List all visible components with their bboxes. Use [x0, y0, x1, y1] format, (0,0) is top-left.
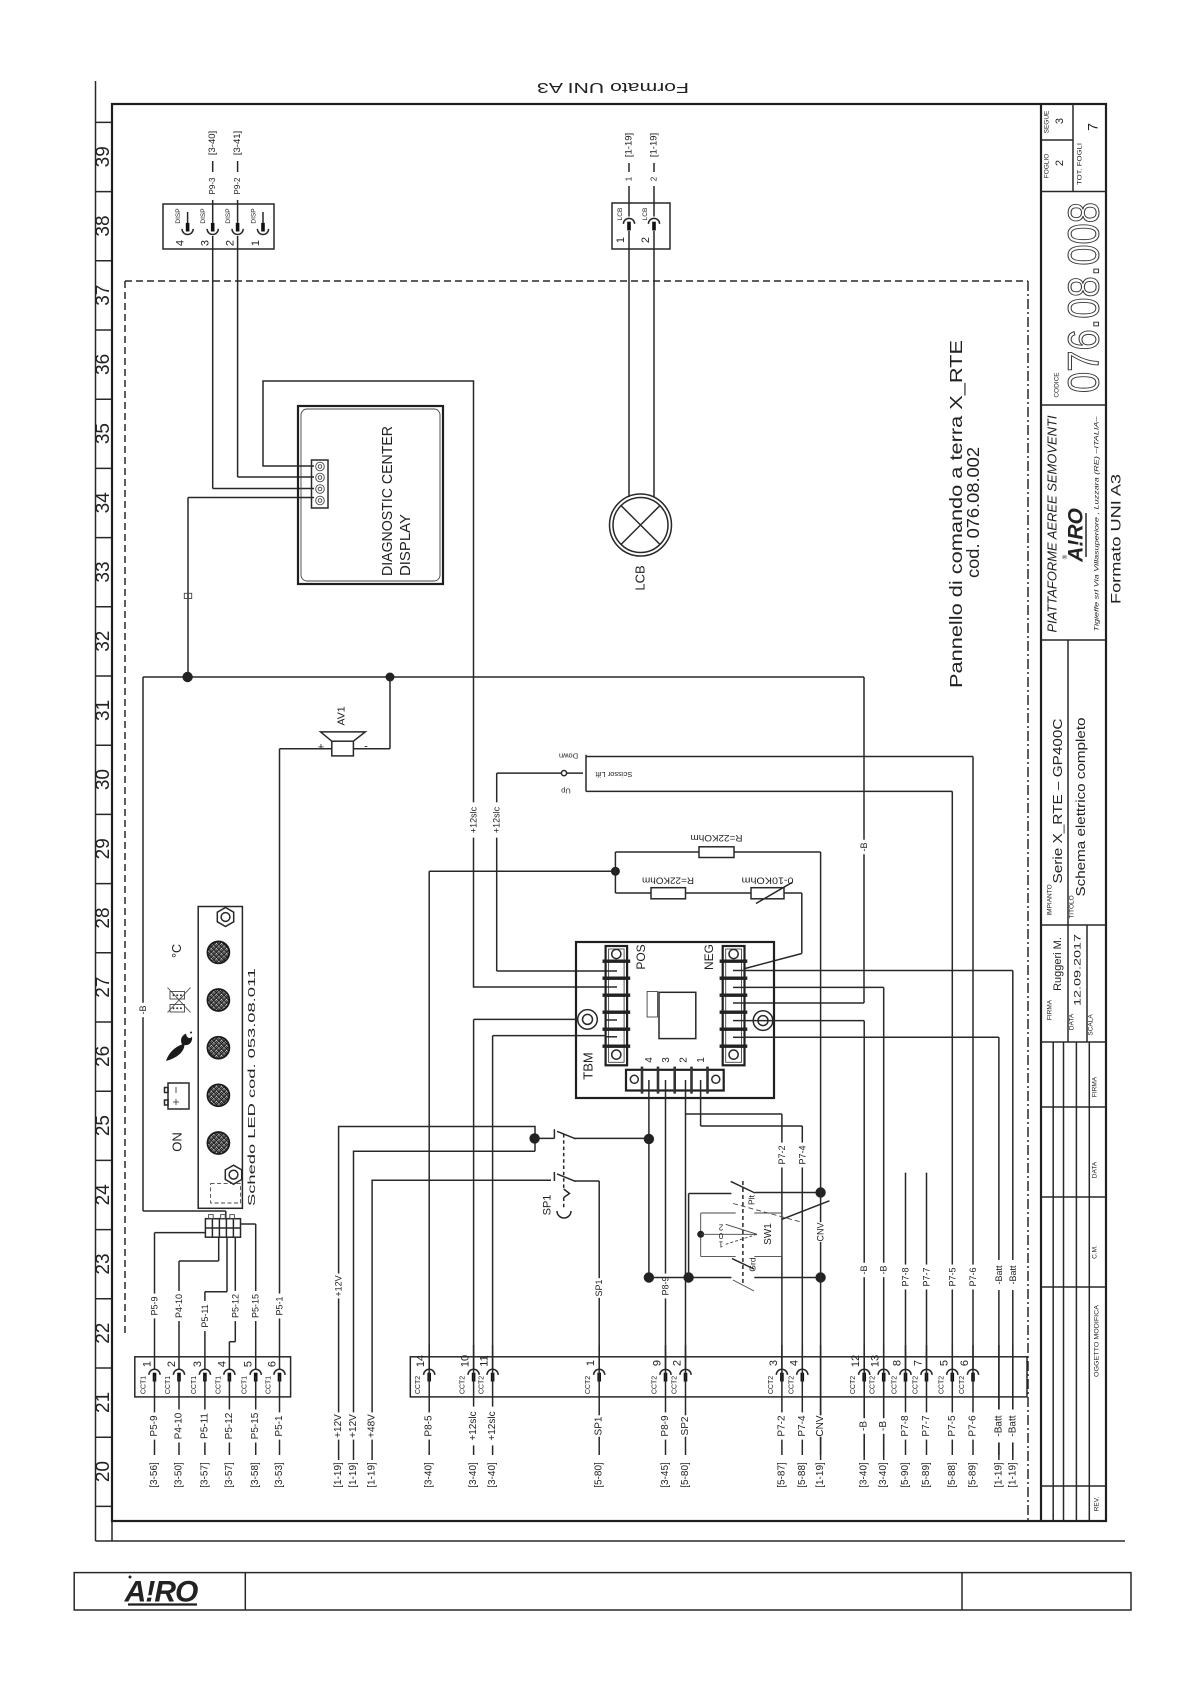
svg-text:1: 1 — [142, 1361, 154, 1367]
svg-text:P4-10: P4-10 — [174, 1294, 184, 1318]
wire CNV — [820, 852, 822, 1460]
svg-text:P9-3: P9-3 — [208, 177, 217, 194]
CCT2 pin 6 — [959, 1360, 979, 1394]
svg-text:SP1: SP1 — [594, 1416, 605, 1435]
resistor R=22KOhm (upper) — [615, 833, 820, 871]
svg-text:SP1: SP1 — [542, 1195, 554, 1216]
svg-text:[1-19]: [1-19] — [367, 1462, 378, 1488]
svg-text:TITOLO: TITOLO — [1069, 895, 1076, 918]
svg-text:28: 28 — [93, 907, 114, 928]
wire LED P5-9 — [155, 1233, 206, 1369]
label P7-6 (upper) — [968, 1265, 978, 1290]
svg-text:31: 31 — [93, 700, 114, 721]
svg-text:R=22KOhm: R=22KOhm — [691, 833, 743, 843]
svg-text:4: 4 — [788, 1360, 800, 1366]
svg-text:29: 29 — [93, 838, 114, 859]
svg-text:CCT2: CCT2 — [768, 1376, 775, 1394]
svg-text:P8-5: P8-5 — [424, 1415, 435, 1437]
wire SP1 output to CCT2 pin1 — [598, 1181, 600, 1369]
svg-text:+12slc: +12slc — [469, 806, 479, 833]
label P8-9 (upper) — [661, 1274, 671, 1299]
svg-text:CNV: CNV — [815, 1415, 826, 1436]
SW1 position indicator — [697, 1181, 829, 1283]
svg-text:SP2: SP2 — [680, 1416, 691, 1435]
svg-text:2: 2 — [718, 1223, 723, 1232]
wire LCB pin2 label [1-19] — [649, 133, 660, 217]
CCT2 pin 8 — [892, 1360, 912, 1394]
dashed panel boundary — [125, 281, 1028, 1520]
svg-text:14: 14 — [415, 1355, 427, 1367]
svg-text:+12slc: +12slc — [487, 1411, 498, 1440]
display connector (4 pins) — [312, 460, 329, 508]
label -B (right branch) — [859, 840, 869, 854]
ruler numbers 39..20 — [93, 146, 114, 1482]
hex nut bottom — [225, 1165, 241, 1184]
label CNV (upper) — [816, 1222, 826, 1242]
svg-text:DATA: DATA — [1092, 1161, 1099, 1178]
wire CCT2 -B to [3-40] — [859, 1345, 870, 1488]
title block FOGLIO/SEGUE cells — [1041, 104, 1101, 192]
hex nut top — [217, 908, 233, 927]
svg-text:TOT. FOGLI: TOT. FOGLI — [1077, 143, 1084, 185]
svg-text:CCT2: CCT2 — [415, 1376, 422, 1394]
svg-text:CCT1: CCT1 — [191, 1376, 198, 1394]
label P5-9 (upper) — [150, 1294, 160, 1319]
wire LED P5-15 — [241, 1224, 256, 1369]
title block frame — [1041, 104, 1106, 1521]
svg-text:33: 33 — [93, 561, 114, 582]
svg-text:[5-89]: [5-89] — [921, 1462, 932, 1488]
svg-text:FIRMA: FIRMA — [1047, 999, 1054, 1020]
svg-text:CCT2: CCT2 — [959, 1376, 966, 1394]
svg-text:NEG: NEG — [702, 944, 716, 970]
svg-text:CCT2: CCT2 — [892, 1376, 899, 1394]
wire CCT2 SP2 to [5-80] — [680, 1345, 691, 1488]
svg-text:1: 1 — [585, 1360, 597, 1366]
svg-text:10: 10 — [460, 1355, 472, 1367]
wire AV1 plus to CCT1 pin6 — [280, 749, 332, 1369]
svg-text:P5-1: P5-1 — [274, 1415, 285, 1437]
svg-text:C.M.: C.M. — [1092, 1245, 1099, 1259]
potentiometer 0-10KOhm — [686, 876, 794, 904]
svg-text:Ruggeri M.: Ruggeri M. — [1052, 937, 1064, 991]
svg-text:R=22KOhm: R=22KOhm — [642, 876, 694, 886]
svg-text:REV.: REV. — [1094, 1497, 1101, 1512]
svg-text:P5-11: P5-11 — [199, 1413, 210, 1439]
svg-text:3: 3 — [200, 240, 212, 246]
wire P9-2 to [3-41] — [232, 131, 243, 223]
svg-text:P5-12: P5-12 — [224, 1412, 235, 1439]
LED board connector — [205, 1215, 240, 1238]
TBM bottom terminal strip — [626, 1057, 724, 1094]
svg-text:2: 2 — [1054, 160, 1066, 166]
pushbutton SP1 — [529, 1129, 649, 1218]
svg-text:CCT1: CCT1 — [165, 1376, 172, 1394]
box DIAGNOSTIC CENTER DISPLAY — [298, 406, 443, 584]
label -B (left branch) — [138, 1003, 148, 1017]
main border — [112, 104, 1106, 1521]
wire LED P4-10 — [179, 1237, 219, 1369]
wire washer to +12slc CCT2 pin10 — [474, 1019, 578, 1369]
TBM terminal strip POS — [603, 944, 649, 1065]
CCT2 pin 10 — [460, 1355, 480, 1394]
AIRO logo (footer) — [124, 1576, 198, 1609]
svg-text:4: 4 — [216, 1361, 228, 1367]
svg-text:CCT2: CCT2 — [479, 1376, 486, 1394]
TBM ic chip — [647, 992, 696, 1039]
CCT1 pin 4 — [215, 1361, 235, 1394]
svg-text:1: 1 — [625, 176, 634, 181]
svg-text:P7-6: P7-6 — [968, 1267, 978, 1286]
label P5-1 (upper) — [275, 1294, 285, 1319]
wire NEG pin4 to -B (12) — [745, 1021, 864, 1460]
CCT2 pin 12 — [850, 1355, 870, 1394]
svg-text:Serie X_RTE – GP400C: Serie X_RTE – GP400C — [1051, 719, 1065, 884]
wire +48V to [1-19] — [367, 1412, 378, 1487]
wire -B left branch down to LED board — [143, 677, 226, 1219]
wire pot to NEG pin1 — [745, 893, 802, 969]
wire CCT2 P7-6 to [5-89] — [968, 1345, 979, 1488]
label P5-15 (upper) — [251, 1291, 261, 1321]
wire CCT2 P7-5 to [5-88] — [947, 1345, 958, 1488]
svg-text:CCT2: CCT2 — [913, 1376, 920, 1394]
svg-text:[3-45]: [3-45] — [660, 1462, 671, 1488]
CCT2 pin 1 — [585, 1360, 605, 1394]
svg-text:CCT1: CCT1 — [141, 1376, 148, 1394]
svg-text:[1-19]: [1-19] — [333, 1462, 344, 1488]
svg-text:FOGLIO: FOGLIO — [1044, 154, 1051, 179]
svg-text:30: 30 — [93, 769, 114, 790]
svg-text:21: 21 — [93, 1392, 114, 1413]
svg-text:-Batt: -Batt — [994, 1265, 1004, 1285]
CCT1 pin 2 — [165, 1361, 185, 1394]
svg-text:-: - — [364, 741, 368, 753]
svg-text:-Batt: -Batt — [1007, 1415, 1018, 1436]
wire CCT2 P7-8 to [5-90] — [900, 1345, 911, 1488]
wire CCT2 CNV to [1-19] — [815, 1345, 826, 1488]
label -Batt (upper left) — [994, 1260, 1004, 1290]
icon temperature — [170, 944, 184, 958]
svg-text:[1-19]: [1-19] — [993, 1462, 1004, 1488]
svg-text:25: 25 — [93, 1115, 114, 1136]
CCT2 pin 13 — [870, 1355, 890, 1394]
page outer edge left — [95, 81, 97, 1541]
wire CCT2 -Batt to [1-19] — [1007, 1345, 1018, 1488]
svg-text:CNV: CNV — [816, 1222, 826, 1241]
svg-text:2: 2 — [672, 1360, 684, 1366]
svg-text:-Batt: -Batt — [1008, 1265, 1018, 1285]
svg-text:+12V: +12V — [334, 1275, 344, 1296]
svg-text:2: 2 — [166, 1361, 178, 1367]
svg-text:[3-40]: [3-40] — [859, 1462, 870, 1488]
svg-text:Schedo LED cod. 053.08.011: Schedo LED cod. 053.08.011 — [246, 968, 258, 1206]
svg-text:DISP: DISP — [251, 208, 258, 223]
svg-text:CCT2: CCT2 — [585, 1376, 592, 1394]
svg-text:11: 11 — [479, 1355, 491, 1366]
svg-text:P7-7: P7-7 — [921, 1415, 932, 1437]
svg-text:P4-10: P4-10 — [174, 1412, 185, 1439]
CCT2 pin 5 — [938, 1360, 958, 1394]
svg-text:CCT1: CCT1 — [215, 1376, 222, 1394]
svg-text:38: 38 — [93, 215, 114, 236]
wire NEG pin1 to -Batt — [745, 971, 1013, 1461]
wire selector wiper to +12slc POS — [497, 773, 606, 971]
svg-text:CCT2: CCT2 — [788, 1376, 795, 1394]
wire CCT1 pin 2 to [3-50] — [174, 1376, 185, 1488]
TBM mounting hole right — [753, 1011, 773, 1031]
svg-text:P7-4: P7-4 — [797, 1415, 808, 1437]
connector CCT1 — [135, 1357, 291, 1397]
wire +48V feed — [372, 1180, 551, 1460]
wire LCB pin1 label [1-19] — [624, 133, 635, 217]
wire +12V to [1-19] — [348, 1412, 359, 1487]
CCT1 pin 5 — [242, 1361, 262, 1394]
ruler ticks — [96, 122, 113, 1506]
svg-text:[1-19]: [1-19] — [348, 1462, 359, 1488]
svg-text:[3-40]: [3-40] — [878, 1462, 889, 1488]
svg-text:SEGUE: SEGUE — [1044, 110, 1051, 133]
title block CODICE cell — [1054, 202, 1109, 398]
page bottom edge — [96, 1540, 1126, 1542]
wire CCT2 P7-7 to [5-89] — [921, 1345, 932, 1488]
svg-text:4: 4 — [175, 240, 187, 246]
label P5-12 (upper) — [230, 1291, 240, 1321]
svg-text:ON: ON — [170, 1132, 185, 1152]
label P7-2 (upper) — [777, 1143, 787, 1168]
svg-text:34: 34 — [93, 492, 114, 514]
wire TBM pin3 to CCT2 P8-9 — [665, 1080, 667, 1369]
node resistor junction — [429, 867, 620, 876]
label SP1 (upper) — [594, 1278, 604, 1298]
svg-text:CCT2: CCT2 — [938, 1376, 945, 1394]
ruler strip right line — [111, 104, 113, 1541]
svg-text:-B: -B — [138, 1006, 148, 1015]
svg-text:3: 3 — [1054, 118, 1066, 124]
wire P9-3 to [3-40] — [207, 131, 218, 223]
svg-text:P7-2: P7-2 — [776, 1415, 787, 1437]
wire LCB pin1 to lamp — [628, 231, 630, 497]
svg-text:P7-4: P7-4 — [797, 1145, 807, 1164]
svg-text:7: 7 — [1085, 123, 1101, 131]
svg-text:39: 39 — [93, 146, 114, 167]
wire DISP pin2 down to display connector — [238, 236, 314, 477]
dashed resistor outline — [211, 1184, 241, 1203]
svg-text:3: 3 — [192, 1361, 204, 1367]
icon battery — [165, 1083, 190, 1109]
svg-text:Scissor Lift: Scissor Lift — [595, 770, 633, 779]
svg-text:[1-19]: [1-19] — [649, 133, 660, 157]
wire selector Up to P7-5 — [586, 791, 952, 1369]
label -B (pin12 upper) — [859, 1263, 869, 1277]
wire CCT1 pin 5 to [3-58] — [250, 1376, 261, 1488]
selector Scissor Lift — [559, 752, 632, 796]
svg-text:Grd: Grd — [748, 1257, 758, 1271]
svg-text:cod. 076.08.002: cod. 076.08.002 — [963, 447, 983, 578]
wire LCB pin2 to lamp — [653, 231, 655, 498]
svg-text:Formato UNI A3: Formato UNI A3 — [1109, 474, 1124, 604]
svg-text:P9-2: P9-2 — [233, 177, 242, 194]
wire P7-7 stub — [922, 1173, 932, 1369]
svg-text:7: 7 — [913, 1360, 925, 1366]
svg-text:P8-9: P8-9 — [661, 1276, 671, 1295]
svg-text:[5-89]: [5-89] — [968, 1462, 979, 1488]
svg-text:32: 32 — [93, 631, 114, 652]
title block IMPIANTO/TITOLO — [1047, 640, 1089, 925]
label P7-4 (upper) — [797, 1143, 807, 1168]
svg-text:IMPIANTO: IMPIANTO — [1047, 884, 1054, 915]
title block manufacturer cell — [1045, 415, 1101, 632]
connector DISP (4-pin) — [163, 204, 274, 249]
svg-text:OGGETTO MODIFICA: OGGETTO MODIFICA — [1094, 1304, 1101, 1377]
label +12V (upper) — [334, 1274, 344, 1299]
svg-text:26: 26 — [93, 1046, 114, 1067]
svg-text:Schema elettrico completo: Schema elettrico completo — [1074, 717, 1088, 896]
Pannello di comando note — [946, 340, 983, 688]
svg-text:[5-90]: [5-90] — [900, 1462, 911, 1488]
svg-text:[3-57]: [3-57] — [224, 1462, 235, 1488]
svg-text:P7-7: P7-7 — [922, 1267, 932, 1286]
buzzer AV1 — [318, 706, 368, 756]
svg-text:[3-40]: [3-40] — [424, 1462, 435, 1488]
svg-text:1: 1 — [615, 237, 627, 243]
lamp LCB — [610, 494, 672, 591]
svg-text:5: 5 — [938, 1360, 950, 1366]
wire CCT1 pin 3 to [3-57] — [199, 1376, 210, 1488]
CCT2 pin 2 — [672, 1360, 692, 1394]
svg-text:1: 1 — [718, 1240, 723, 1249]
wire CCT2 P8-9 to [3-45] — [660, 1345, 671, 1488]
LED lamp 4 — [207, 1084, 229, 1106]
svg-text:SP1: SP1 — [594, 1279, 604, 1296]
AIRO logo (title block) — [1062, 508, 1088, 563]
label -Batt (upper right) — [1008, 1260, 1018, 1290]
label +12slc (display wire) — [469, 802, 479, 837]
svg-text:[5-88]: [5-88] — [947, 1462, 958, 1488]
svg-text:CCT2: CCT2 — [672, 1376, 679, 1394]
wire CCT2 P8-5 to [3-40] — [424, 1345, 435, 1488]
wire DISP pin3 down to display connector — [213, 236, 314, 489]
svg-text:[1-19]: [1-19] — [1007, 1462, 1018, 1488]
LED lamp 5 (ON) — [207, 1132, 229, 1154]
wire CCT1 pin 4 to [3-57] — [224, 1376, 235, 1488]
svg-text:-B: -B — [859, 1421, 870, 1431]
wire CCT2 +12slc to [3-40] — [487, 1345, 498, 1488]
svg-text:-B: -B — [859, 1266, 869, 1275]
svg-text:2: 2 — [679, 1057, 690, 1063]
wire TBM pin1 to P7-4 — [701, 1080, 803, 1369]
svg-text:CCT2: CCT2 — [460, 1376, 467, 1394]
wire selector Down to P7-6 — [586, 757, 973, 1370]
wire -B right branch to TBM NEG — [745, 677, 864, 1003]
wire CCT1 pin 6 to [3-53] — [274, 1376, 285, 1488]
svg-text:DISP: DISP — [200, 208, 207, 223]
svg-text:1: 1 — [250, 240, 262, 246]
label P5-11 (upper) — [200, 1301, 210, 1331]
label P7-5 (upper) — [947, 1265, 957, 1290]
wire POS pin4 to +12slc CCT2 pin11 — [493, 1036, 606, 1369]
svg-text:®: ® — [1062, 554, 1069, 559]
svg-text:+: + — [318, 742, 324, 754]
svg-text:9: 9 — [652, 1360, 664, 1366]
svg-text:35: 35 — [93, 423, 114, 444]
svg-text:Formato UNI A3: Formato UNI A3 — [537, 79, 689, 96]
svg-text:[5-80]: [5-80] — [594, 1462, 605, 1488]
CCT1 pin 6 — [266, 1361, 286, 1394]
LED lamp 2 — [207, 989, 229, 1011]
switch SW1 contact Plt — [689, 1181, 826, 1222]
svg-text:076.08.008: 076.08.008 — [1060, 202, 1109, 393]
svg-text:DISP: DISP — [225, 208, 232, 223]
CCT2 pin 11 — [479, 1355, 499, 1394]
svg-text:3: 3 — [661, 1057, 672, 1063]
board Schedo LED — [198, 907, 258, 1209]
wire AV1 minus to bus — [353, 677, 390, 749]
svg-text:DISPLAY: DISPLAY — [398, 514, 414, 576]
title block FIRMA/DATA/SCALA — [1047, 925, 1095, 1042]
svg-text:[5-88]: [5-88] — [797, 1462, 808, 1488]
svg-text:[1-19]: [1-19] — [624, 133, 635, 157]
svg-text:CCT1: CCT1 — [266, 1376, 273, 1394]
svg-text:P5-9: P5-9 — [150, 1296, 160, 1315]
svg-text:2: 2 — [640, 237, 652, 243]
CCT2 pin 3 — [768, 1360, 788, 1394]
Formato UNI A3 (right side) — [1109, 474, 1124, 604]
svg-text:LCB: LCB — [642, 208, 649, 221]
TBM mounting hole left — [578, 1010, 598, 1030]
svg-text:[3-53]: [3-53] — [274, 1462, 285, 1488]
svg-text:CCT2: CCT2 — [850, 1376, 857, 1394]
svg-text:0: 0 — [718, 1231, 723, 1240]
svg-text:+12V: +12V — [333, 1414, 344, 1438]
switch SW1 contact Grd — [649, 1194, 826, 1292]
svg-text:LCB: LCB — [633, 565, 648, 590]
svg-text:-B: -B — [878, 1421, 889, 1431]
wire +12V feed 1 — [339, 1127, 535, 1461]
svg-text:P5-12: P5-12 — [230, 1294, 240, 1318]
footer strip — [74, 1573, 1131, 1610]
wire display pin4 to -B bus — [184, 498, 314, 678]
svg-text:2: 2 — [225, 240, 237, 246]
CCT1 pin 3 — [191, 1361, 211, 1394]
svg-text:P7-5: P7-5 — [947, 1267, 957, 1286]
svg-text:DATA: DATA — [1069, 1013, 1076, 1030]
CCT2 pin 4 — [788, 1360, 808, 1394]
svg-text:-B: -B — [859, 843, 869, 852]
label -B (pin13 upper) — [879, 1263, 889, 1277]
svg-text:+12slc: +12slc — [468, 1411, 479, 1440]
svg-text:SW1: SW1 — [763, 1223, 774, 1245]
svg-text:4: 4 — [644, 1057, 655, 1063]
wire LED P5-11 — [205, 1237, 227, 1369]
wire CCT2 -B to [3-40] — [878, 1345, 889, 1488]
svg-text:+12V: +12V — [348, 1414, 359, 1438]
svg-text:3: 3 — [768, 1360, 780, 1366]
wire CCT2 +12slc to [3-40] — [468, 1345, 479, 1488]
svg-text:12: 12 — [850, 1355, 862, 1367]
svg-text:[5-87]: [5-87] — [776, 1462, 787, 1488]
svg-text:-Batt: -Batt — [993, 1415, 1004, 1436]
icon ON — [170, 1132, 185, 1152]
wire display pin1 loop to +12slc — [263, 381, 606, 987]
wire P7-8 stub — [901, 1173, 911, 1369]
svg-text:P7-8: P7-8 — [901, 1267, 911, 1286]
module TBM — [576, 942, 774, 1098]
svg-text:LCB: LCB — [617, 208, 624, 221]
svg-text:Down: Down — [559, 752, 578, 761]
wire NEG pin2 to -B (13) — [745, 987, 884, 1460]
svg-text:P8-9: P8-9 — [660, 1415, 671, 1437]
wire +12V to [1-19] — [333, 1412, 344, 1487]
